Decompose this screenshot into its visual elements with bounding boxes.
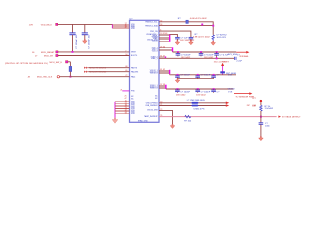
- junction lower bus c1: [177, 74, 179, 76]
- junction bus B c2: [197, 88, 199, 90]
- svg-text:C? 100nF: C? 100nF: [180, 91, 190, 93]
- svg-text:VDDIO: VDDIO: [228, 89, 235, 91]
- junction bus A c3: [216, 51, 218, 53]
- junction c3 to VCAP wire: [216, 57, 218, 59]
- svg-text:2.2uF: 2.2uF: [236, 61, 242, 63]
- svg-text:61: 61: [160, 69, 162, 71]
- IC right pin names: [144, 22, 158, 119]
- svg-text:PH0: PH0: [131, 91, 135, 93]
- ground arrow GND bundle: [112, 118, 118, 123]
- pins VDDA group stubs: [159, 34, 170, 41]
- capacitor C? busA 3: [214, 52, 229, 58]
- port VDD_MCU: [56, 23, 58, 25]
- wire cap stubs to rail: [178, 77, 214, 78]
- ground arrow TP column: [259, 137, 264, 141]
- pin VDD1: [112, 23, 129, 25]
- capacitor C? busB 1: [175, 89, 190, 96]
- pin GND7: [115, 111, 130, 113]
- wire MCU_RX arrow port: [84, 71, 129, 74]
- pin GND2: [115, 102, 130, 104]
- power arrow up 1V2: [221, 63, 224, 66]
- off-page arrowhead DP: [226, 102, 229, 105]
- wire arrow stem: [222, 66, 224, 75]
- svg-text:34: 34: [163, 46, 165, 48]
- svg-text:USB_DM/PA12: USB_DM/PA12: [145, 104, 157, 107]
- svg-text:PB8/I2C1_SCL: PB8/I2C1_SCL: [145, 22, 157, 24]
- junction bus A c1: [177, 51, 179, 53]
- svg-text:MCU_SW_CLK: MCU_SW_CLK: [37, 77, 53, 79]
- svg-text:C? 100nF 16V: C? 100nF 16V: [89, 34, 91, 49]
- test point TP? red dot: [260, 100, 262, 102]
- svg-text:VDD12_3: VDD12_3: [150, 73, 158, 75]
- svg-text:97: 97: [160, 84, 162, 86]
- wire VUSB pin to ground: [159, 110, 173, 124]
- pin numbers VDD1-4: [125, 23, 127, 29]
- port MCU_RESET: [56, 51, 58, 53]
- junction bus B c1: [177, 88, 179, 90]
- pin VCAP stub: [159, 56, 166, 58]
- off-page arrowhead DM: [226, 104, 229, 107]
- wire cap to ground: [260, 124, 262, 136]
- svg-text:6: 6: [160, 30, 161, 32]
- junction SDA net: [201, 24, 203, 26]
- svg-text:94: 94: [125, 54, 127, 56]
- svg-text:23: 23: [160, 46, 162, 48]
- resistor R? 4.64k: [178, 18, 208, 23]
- resistor R? vertical zigzag TP: [252, 105, 274, 111]
- pin numbers PE group: [160, 84, 165, 86]
- junction VBUS and TP column: [260, 116, 262, 118]
- pin numbers USB pins: [160, 101, 162, 117]
- wire USB DM: [159, 105, 226, 107]
- op IC U? main microcontroller: [130, 19, 160, 123]
- pin GND3: [115, 104, 130, 106]
- junction lower bus c2: [197, 74, 199, 76]
- svg-text:R? 10k: R? 10k: [184, 120, 192, 122]
- svg-text:99: 99: [125, 112, 127, 114]
- pins PE0-PE2 stubs: [159, 85, 166, 88]
- svg-text:5V VBUS DETECT: 5V VBUS DETECT: [282, 116, 301, 118]
- junction dots on VDDA bar: [169, 35, 170, 42]
- svg-text:C? 100nF 16V: C? 100nF 16V: [76, 34, 78, 49]
- wire resistor to junction: [260, 111, 262, 123]
- svg-text:21: 21: [120, 89, 122, 91]
- pin numbers right top: [160, 20, 167, 35]
- wire VDD net top-left: [29, 24, 113, 26]
- svg-text:MCU_SW_D: MCU_SW_D: [50, 62, 63, 64]
- wire bus B VDDIO: [166, 88, 234, 90]
- pin GND4: [115, 106, 130, 108]
- svg-text:62: 62: [163, 69, 165, 71]
- svg-text:PDR_ON: PDR_ON: [150, 31, 158, 33]
- pin numbers left mid wires: [125, 50, 127, 77]
- node VDDA bundle bar: [169, 34, 171, 41]
- junction bus B c3: [213, 88, 215, 90]
- svg-text:16V X5R 0402: 16V X5R 0402: [180, 40, 195, 42]
- wire nRST to IC: [32, 52, 130, 54]
- pin numbers PD group: [160, 69, 165, 71]
- port BOOT0: [56, 54, 58, 56]
- svg-text:VDD50_USB: VDD50_USB: [147, 110, 158, 112]
- junction dots on bus B bar: [165, 85, 166, 89]
- svg-text:L? CMF 90R 0605: L? CMF 90R 0605: [187, 100, 206, 102]
- svg-text:USB2.0 FS: USB2.0 FS: [194, 108, 205, 110]
- svg-text:NET: NET: [225, 61, 230, 63]
- off-page mark VBUS right: [278, 116, 281, 118]
- wire USB DP: [159, 102, 226, 104]
- capacitor C? busB 2: [195, 89, 210, 96]
- wire I2C SDA pin: [159, 25, 213, 27]
- junction C1 column on nRST wire: [72, 51, 74, 53]
- wire lower bus 1V2: [170, 74, 236, 76]
- svg-text:70: 70: [160, 101, 162, 103]
- capacitor C? 100n column 1: [69, 24, 78, 52]
- pins PC0-PC2 stubs: [159, 48, 173, 51]
- pin stub PH0: [120, 89, 129, 91]
- svg-text:C? 100nF: C? 100nF: [201, 91, 211, 93]
- ground arrow VUSB: [170, 124, 175, 128]
- ferrite bead L? on DP: [191, 102, 199, 104]
- ground arrow lower rail: [175, 79, 180, 83]
- off-page arrow bus B: [234, 92, 254, 98]
- capacitor C? TP column: [259, 123, 271, 128]
- capacitor C? col PDR: [189, 34, 211, 41]
- svg-text:VDDIO_3: VDDIO_3: [150, 88, 158, 90]
- svg-text:SOD-323: SOD-323: [217, 37, 227, 39]
- svg-text:C? 100nF: C? 100nF: [201, 75, 211, 77]
- wire SWCLK net: [28, 77, 130, 79]
- wire VBUS sense pink: [159, 116, 277, 118]
- svg-text:VDD_3: VDD_3: [152, 50, 158, 52]
- pins PD0-PD2 stubs: [159, 70, 170, 73]
- svg-text:4.99 kΩ 1% 0402: 4.99 kΩ 1% 0402: [193, 36, 211, 38]
- capacitor C? busA 2: [199, 52, 214, 59]
- svg-text:USB_DP/PA11: USB_DP/PA11: [146, 101, 158, 104]
- pin VDD3: [112, 26, 129, 28]
- svg-text:VCAP_1: VCAP_1: [151, 57, 158, 60]
- node bus B bar: [165, 85, 167, 89]
- node GND bundle bar left: [114, 102, 116, 118]
- ground arrow under C VDDA: [175, 41, 180, 45]
- capacitor C? busB 3: [211, 89, 220, 93]
- IC left pin names: [131, 24, 139, 115]
- junction dots on bus A bar: [172, 47, 173, 51]
- svg-text:3V3 RAIL: 3V3 RAIL: [239, 55, 249, 58]
- node bus A bar: [172, 48, 174, 52]
- svg-text:98: 98: [163, 84, 165, 86]
- wire BOOT0 to IC: [35, 55, 130, 57]
- wire ground rail lower bus: [178, 78, 214, 80]
- wire PDR pin: [159, 31, 191, 37]
- resistor R? zigzag on VBUS wire: [184, 115, 192, 122]
- svg-text:68: 68: [125, 66, 127, 68]
- svg-text:PA10/RX: PA10/RX: [131, 70, 139, 73]
- ground arrow under diode: [211, 41, 216, 45]
- node VCAP bar: [165, 57, 167, 58]
- port MCU_SWD_IO: [50, 61, 71, 64]
- capacitor C? lower bus 3: [211, 75, 220, 78]
- wire MCU_TX arrow port: [84, 67, 129, 70]
- junction dot VCAP bar: [165, 56, 166, 57]
- pin GND5: [115, 108, 130, 110]
- wire resistor to node: [188, 22, 213, 35]
- node VDD bundle bar: [111, 24, 113, 28]
- svg-text:92: 92: [160, 20, 162, 22]
- svg-text:69: 69: [125, 70, 127, 72]
- capacitor C? VCAP end: [234, 54, 242, 62]
- svg-text:TAMP_IN/WKUP: TAMP_IN/WKUP: [144, 115, 158, 118]
- ferrite bead L? on DM: [191, 105, 199, 107]
- pin VDD4: [112, 27, 129, 29]
- svg-text:16V 0402: 16V 0402: [196, 94, 206, 96]
- pin GND1: [115, 101, 130, 103]
- svg-text:1%/0402: 1%/0402: [265, 108, 274, 110]
- pin numbers GND pins: [125, 101, 127, 115]
- svg-text:EPAD_GND: EPAD_GND: [138, 119, 148, 122]
- capacitor C? busA 1: [176, 52, 191, 59]
- svg-text:VDD33: VDD33: [152, 41, 158, 43]
- svg-text:DP: DP: [247, 105, 251, 107]
- pin GND6: [115, 109, 130, 111]
- wire bus A: [173, 51, 237, 53]
- svg-text:PA9/TX: PA9/TX: [131, 66, 138, 69]
- wire I2C SCL pin to resistor: [159, 21, 186, 23]
- pin GND8: [115, 113, 130, 115]
- junction resistor to SWCLK wire: [70, 76, 72, 78]
- node lower bus bar: [169, 70, 171, 74]
- svg-text:72: 72: [125, 75, 127, 77]
- svg-text:VDD_MCU: VDD_MCU: [41, 24, 52, 26]
- junction lower bus c3: [213, 74, 215, 76]
- svg-text:93: 93: [160, 24, 162, 26]
- svg-text:PA14: PA14: [131, 75, 135, 78]
- junction bus A c2: [200, 51, 202, 53]
- port SWCLK circle: [57, 76, 59, 78]
- ground arrow under C PDR: [189, 41, 194, 45]
- svg-text:MCU_BT: MCU_BT: [44, 55, 54, 57]
- svg-text:71: 71: [160, 104, 162, 106]
- svg-text:16V 0402: 16V 0402: [176, 94, 186, 96]
- svg-text:BOOT0: BOOT0: [131, 55, 137, 57]
- wire TP to resistor: [260, 102, 262, 105]
- junction dots on lower bus bar: [169, 70, 170, 74]
- ferrite bead FB?: [220, 71, 236, 75]
- capacitor C? VDDA: [175, 37, 195, 41]
- svg-text:52: 52: [125, 27, 127, 29]
- svg-text:31: 31: [160, 56, 162, 58]
- svg-text:PB9/I2C1_SDA: PB9/I2C1_SDA: [145, 24, 158, 27]
- capacitor C? lower bus 2: [195, 75, 210, 78]
- pin VDD2: [112, 25, 129, 27]
- ground arrow under C column 2: [83, 39, 88, 43]
- svg-text:(DNI PULL UP OPTION 10K 0402 R: (DNI PULL UP OPTION 10K 0402 RES 1%): [5, 63, 48, 65]
- pin numbers PC group: [160, 46, 165, 48]
- svg-text:C? 100nF: C? 100nF: [180, 75, 190, 77]
- diode D? vertical zigzag: [212, 35, 227, 41]
- svg-text:MCU_RESET: MCU_RESET: [41, 52, 55, 54]
- svg-text:47: 47: [163, 56, 165, 58]
- wire VCAP net: [159, 57, 234, 59]
- pin numbers VCAP: [160, 56, 165, 58]
- svg-text:48: 48: [165, 33, 167, 35]
- junction at vertical 213: [212, 25, 214, 27]
- svg-text:7: 7: [125, 50, 126, 52]
- capacitor C? lower bus 1: [175, 75, 190, 78]
- pin numbers NC pins: [125, 96, 127, 101]
- wire VDDA bar to cap: [170, 34, 178, 37]
- off-page arrow bus A: [236, 51, 249, 58]
- svg-text:4.64 kΩ 1% 0402: 4.64 kΩ 1% 0402: [190, 18, 208, 20]
- svg-text:100n: 100n: [265, 125, 271, 127]
- resistor R? pull: [69, 62, 72, 77]
- capacitor C? 100n column 2 with ground: [82, 24, 91, 48]
